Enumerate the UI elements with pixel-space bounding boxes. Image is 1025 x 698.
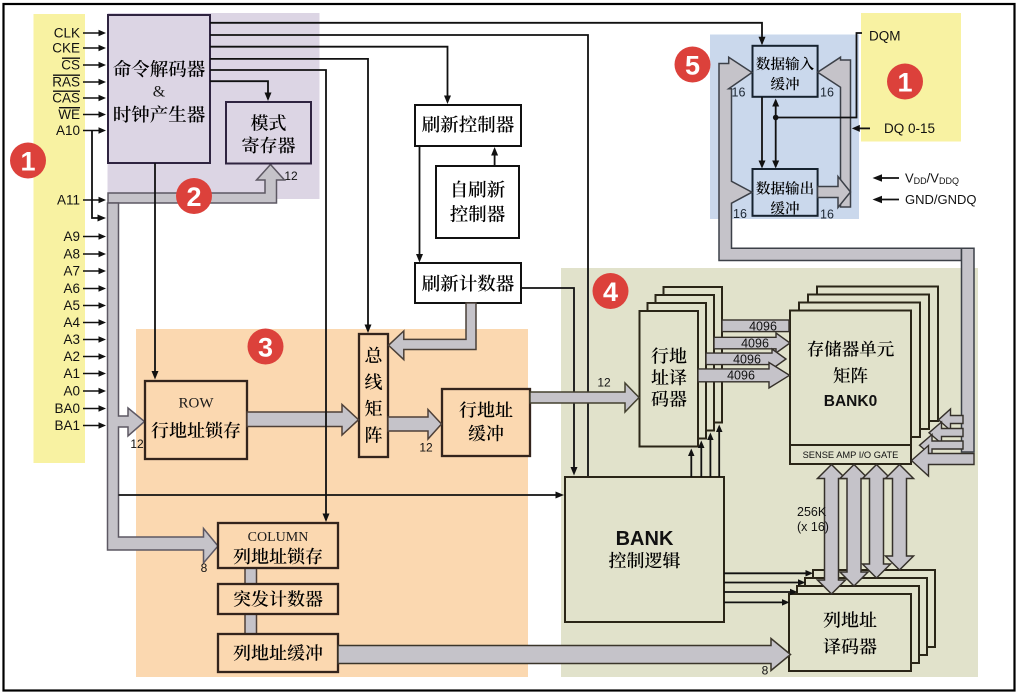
wire: refresh controller to refresh counter (419, 146, 421, 260)
svg-text:A3: A3 (63, 332, 80, 347)
memory cell array BANK0 box (790, 311, 911, 446)
wire: address trunk to BANK control left (119, 494, 562, 496)
svg-text:BA1: BA1 (54, 418, 80, 433)
bus matrix box (359, 334, 388, 457)
wire: VDD arrow (876, 177, 899, 179)
svg-text:BANK: BANK (616, 528, 674, 550)
bus: column buffer to column decoder with 8 (338, 639, 791, 671)
arrowhead (571, 467, 578, 476)
bus bar 4096 line 1 (722, 320, 789, 332)
wire: A10 branch down to address trunk (92, 131, 103, 219)
arrowhead (698, 441, 705, 449)
wire: GND arrow (876, 199, 899, 201)
svg-text:A10: A10 (56, 123, 80, 138)
bus fork arrow into memory stack layer 2 (920, 435, 964, 457)
burst counter box (218, 584, 338, 614)
bus fork big arrow into sense amp right edge (912, 446, 975, 477)
arrowhead (152, 371, 159, 380)
svg-text:&: & (153, 84, 166, 101)
wire: BANK control to column decoder layer 1 (724, 572, 807, 574)
sense amp I/O gate strip (790, 445, 911, 464)
svg-text:3: 3 (258, 332, 273, 362)
bus: COLUMN latch to burst counter connector (245, 566, 257, 586)
svg-text:2: 2 (186, 182, 201, 212)
bus: burst counter to column buffer connector (245, 612, 257, 636)
arrowhead (323, 514, 330, 523)
refresh counter text (422, 274, 514, 291)
svg-text:BANK0: BANK0 (824, 393, 877, 410)
bus: A11 band to mode register with up arrow (108, 165, 285, 204)
bus: right trunk down into green region (962, 248, 975, 452)
svg-text:12: 12 (130, 437, 144, 451)
svg-text:16: 16 (820, 86, 834, 100)
arrowhead (716, 425, 723, 433)
green bank region 4 (561, 268, 978, 677)
arrowhead (265, 93, 272, 102)
ROW address latch box (145, 381, 247, 459)
wire: clock line 5 to COLUMN latch (210, 70, 326, 520)
bus: ROW latch to bus matrix (247, 405, 359, 436)
arrowhead (416, 254, 423, 263)
refresh controller box (415, 105, 521, 146)
svg-text:8: 8 (762, 664, 769, 678)
arrowhead (365, 325, 372, 334)
bus bar 4096 line 4 (698, 363, 790, 389)
wire: clock line 6 to mode register (210, 81, 268, 99)
self refresh text (453, 180, 504, 197)
burst counter text (234, 590, 323, 607)
svg-text:1: 1 (897, 67, 912, 97)
arrowhead (782, 599, 790, 606)
svg-text:A9: A9 (63, 229, 80, 244)
svg-text:A8: A8 (63, 247, 80, 262)
arrowhead (873, 196, 883, 203)
svg-text:A0: A0 (63, 384, 80, 399)
svg-text:COLUMN: COLUMN (248, 530, 309, 545)
arrowhead (873, 174, 883, 182)
svg-text:A5: A5 (63, 298, 80, 313)
red circle 5 (675, 47, 711, 83)
wire: clock line 3 to refresh controller (210, 47, 448, 102)
svg-text:4096: 4096 (741, 337, 769, 351)
bus: refresh counter down-left into bus matrix (389, 303, 477, 360)
wire: BANK control to column decoder layer 4 (724, 601, 784, 603)
svg-text:16: 16 (733, 207, 747, 221)
svg-text:4: 4 (603, 277, 618, 307)
blue data buffer region 5 (710, 35, 859, 220)
arrowhead (759, 37, 766, 46)
svg-text:RAS: RAS (52, 75, 80, 90)
bus bar 4096 line 3 (706, 349, 786, 369)
svg-text:16: 16 (732, 86, 746, 100)
command decoder text (113, 60, 205, 77)
arrowhead (806, 570, 814, 577)
row address decoder box (640, 311, 699, 447)
row address decoder stack layer 3 (664, 287, 723, 423)
column address decoder stack layer 3 (813, 570, 935, 647)
arrowhead (491, 147, 498, 156)
refresh counter box (415, 263, 521, 303)
mode register text (251, 114, 286, 131)
wire: BANK control to column decoder layer 2 (724, 582, 800, 584)
svg-text:A2: A2 (63, 349, 80, 364)
svg-text:DQ 0-15: DQ 0-15 (884, 121, 935, 136)
arrowhead (707, 433, 714, 441)
memory cell array stack layer 3 (817, 287, 938, 422)
bus bar 4096 line 2 (714, 333, 790, 353)
arrowhead (444, 96, 451, 105)
wire: self refresh up to refresh controller (494, 149, 496, 166)
wire: clock line 4 to bus matrix (210, 59, 368, 331)
arrowhead (688, 449, 695, 457)
arrowhead (790, 589, 798, 595)
wire: clock line 2 to BANK control (210, 35, 588, 476)
memory array text (808, 340, 894, 356)
row address decoder stack layer 1 (648, 303, 707, 439)
svg-text:A1: A1 (63, 366, 80, 381)
svg-text:(x 16): (x 16) (797, 520, 829, 534)
svg-text:4096: 4096 (749, 320, 777, 334)
column buffer text (234, 644, 323, 661)
svg-text:12: 12 (419, 441, 433, 455)
svg-text:A4: A4 (63, 315, 80, 330)
wire: refresh counter to BANK control (521, 288, 574, 473)
svg-text:WE: WE (58, 107, 80, 122)
wire: BANK control up to row decoder layer 1 (690, 455, 692, 478)
svg-text:12: 12 (597, 376, 611, 390)
svg-text:256K: 256K (797, 505, 827, 519)
arrowhead (852, 125, 860, 132)
arrowhead (98, 215, 107, 222)
orange address-path region 3 (136, 329, 528, 677)
BANK control logic box (565, 477, 724, 622)
memory cell array stack layer 1 (799, 303, 920, 438)
arrowhead (798, 579, 806, 586)
wire: BANK control up to row decoder layer 2 (700, 447, 702, 478)
svg-text:4096: 4096 (733, 353, 761, 367)
column address buffer box (218, 634, 338, 672)
bus fork arrow into memory stack layer 3 (929, 422, 963, 444)
column decoder text (824, 611, 877, 628)
self refresh controller box (436, 166, 519, 238)
svg-text:GND/GNDQ: GND/GNDQ (905, 192, 977, 207)
wire: command decoder down to ROW latch (154, 163, 156, 377)
bus matrix text (365, 347, 381, 363)
bus: address vertical trunk at left (108, 203, 219, 563)
bus: DQ trunk right of buffers (818, 57, 851, 207)
red circle 2 (176, 178, 212, 214)
svg-text:5: 5 (685, 50, 700, 80)
bus: sense amp to column decoder line 3 (863, 465, 891, 579)
top-right DQ yellow panel (861, 13, 961, 142)
data output buffer text (756, 181, 813, 195)
row address buffer box (442, 389, 530, 456)
svg-text:12: 12 (284, 169, 298, 183)
bus: data-in buffer left arrow and trunk to memory array (719, 57, 962, 260)
bus: sense amp to column decoder line 4 (886, 465, 914, 571)
mode register box (226, 102, 311, 164)
svg-text:CS: CS (61, 58, 80, 73)
wire: bidirectional buffer link (775, 101, 777, 167)
wire: clock line 1 to data input buffer (210, 23, 762, 44)
svg-text:1: 1 (20, 146, 35, 176)
bus: sense amp to column decoder line 1 (818, 465, 846, 595)
row decoder text (651, 347, 686, 364)
wire: input buffer down to output buffer (761, 97, 763, 167)
svg-text:DQM: DQM (869, 29, 901, 44)
svg-text:4096: 4096 (727, 369, 755, 383)
red circle 1 (10, 143, 46, 179)
svg-text:16: 16 (820, 208, 834, 222)
refresh controller text (422, 115, 514, 132)
red circle 3 (248, 329, 284, 365)
wire: DQ 0-15 arrow (854, 127, 870, 129)
left signal yellow panel (34, 14, 86, 463)
svg-text:CKE: CKE (52, 41, 80, 56)
lavender command/clock region (108, 13, 320, 199)
wire: BANK control up to row decoder layer 3 (709, 439, 711, 478)
junction dot (773, 115, 779, 121)
data output buffer box (753, 169, 818, 216)
svg-text:CLK: CLK (54, 26, 80, 41)
column address decoder stack layer 1 (797, 586, 919, 663)
svg-text:SENSE AMP I/O GATE: SENSE AMP I/O GATE (803, 450, 899, 460)
svg-text:BA0: BA0 (54, 401, 80, 416)
wire: BANK control up to row decoder layer 4 (718, 431, 720, 478)
svg-text:A11: A11 (57, 193, 80, 208)
wire: DQM into buffer link (776, 33, 862, 118)
bus: data-out buffer arrow into DQ trunk (818, 177, 851, 208)
row address decoder stack layer 2 (656, 295, 715, 431)
command decoder & clock generator box (108, 15, 210, 163)
svg-text:ROW: ROW (179, 396, 215, 412)
data input buffer box (753, 46, 818, 97)
red circle 4 (593, 273, 629, 309)
memory cell array stack layer 2 (808, 295, 929, 430)
arrowhead (772, 99, 779, 107)
column address decoder box (789, 594, 911, 671)
bus: row address buffer to row decoder 12 (530, 383, 639, 412)
COLUMN address latch box (218, 523, 338, 568)
arrowhead (772, 161, 779, 169)
row address buffer text (459, 401, 512, 418)
data input buffer text (756, 57, 814, 71)
arrowhead (556, 492, 565, 499)
svg-text:8: 8 (201, 561, 208, 575)
bus: sense amp to column decoder line 2 (840, 465, 868, 587)
red circle 1 right (887, 64, 923, 100)
wire: BANK control to column decoder layer 3 (724, 591, 792, 593)
arrowhead (759, 161, 766, 169)
bus fork arrow into memory stack layer 4 (939, 409, 964, 431)
column address decoder stack layer 2 (805, 578, 927, 655)
svg-text:A6: A6 (63, 281, 80, 296)
bus: bus matrix to row address buffer with 12 (388, 410, 442, 440)
svg-text:A7: A7 (63, 264, 80, 279)
svg-text:CAS: CAS (52, 91, 80, 106)
